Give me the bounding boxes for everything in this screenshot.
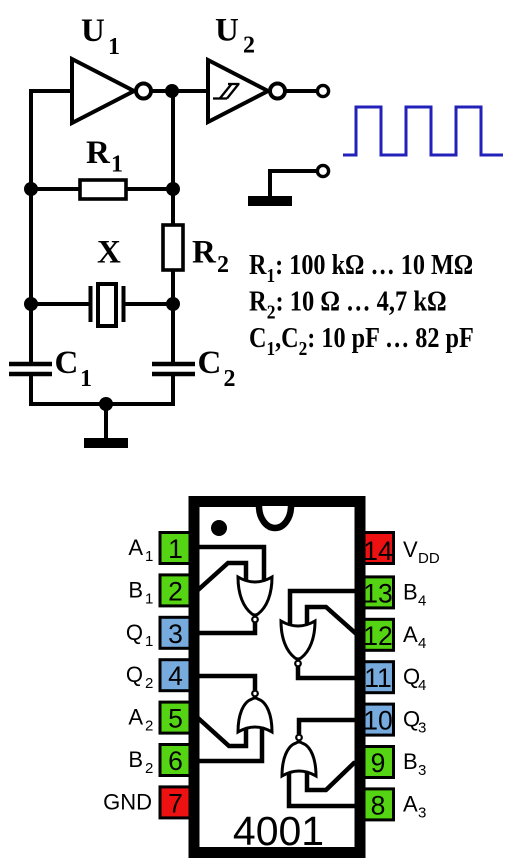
- svg-text:3: 3: [418, 720, 426, 737]
- svg-text:13: 13: [363, 578, 392, 608]
- svg-text:4001: 4001: [233, 808, 324, 854]
- svg-text:4: 4: [418, 635, 426, 652]
- svg-text:1: 1: [145, 548, 153, 565]
- svg-text:GND: GND: [103, 789, 152, 814]
- svg-text:1: 1: [108, 34, 120, 60]
- svg-text:U: U: [81, 13, 105, 49]
- svg-text:X: X: [97, 235, 121, 271]
- svg-text:B: B: [403, 579, 418, 604]
- svg-text:3: 3: [168, 619, 183, 649]
- svg-text:B: B: [128, 577, 143, 602]
- svg-text:2: 2: [243, 33, 255, 59]
- svg-text:6: 6: [168, 746, 183, 776]
- svg-text:9: 9: [371, 748, 386, 778]
- svg-text:A: A: [128, 705, 143, 730]
- svg-text:A: A: [403, 791, 418, 816]
- svg-text:Q: Q: [126, 620, 143, 645]
- svg-text:1: 1: [80, 366, 92, 392]
- svg-text:R: R: [86, 135, 111, 171]
- svg-text:4: 4: [418, 677, 426, 694]
- svg-text:8: 8: [371, 790, 386, 820]
- svg-text:3: 3: [418, 804, 426, 821]
- svg-text:12: 12: [363, 621, 392, 651]
- svg-text:5: 5: [168, 704, 183, 734]
- svg-text:3: 3: [418, 762, 426, 779]
- svg-text:DD: DD: [418, 550, 440, 567]
- svg-text:B: B: [403, 749, 418, 774]
- svg-text:10: 10: [363, 706, 392, 736]
- svg-text:7: 7: [168, 788, 183, 818]
- svg-text:2: 2: [168, 576, 183, 606]
- svg-text:4: 4: [168, 661, 183, 691]
- svg-text:14: 14: [363, 536, 392, 566]
- svg-text:A: A: [403, 622, 418, 647]
- svg-text:11: 11: [364, 663, 392, 693]
- svg-text:1: 1: [145, 633, 153, 650]
- svg-text:A: A: [128, 535, 143, 560]
- svg-text:C: C: [198, 345, 222, 381]
- svg-text:Q: Q: [126, 662, 143, 687]
- svg-text:2: 2: [145, 718, 153, 735]
- svg-text:B: B: [128, 747, 143, 772]
- svg-text:2: 2: [217, 252, 229, 278]
- svg-text:2: 2: [224, 366, 236, 392]
- svg-text:C: C: [55, 345, 79, 381]
- svg-text:V: V: [403, 537, 418, 562]
- svg-text:1: 1: [168, 534, 183, 564]
- svg-text:U: U: [215, 13, 239, 49]
- svg-text:R: R: [192, 235, 217, 271]
- svg-text:2: 2: [145, 675, 153, 692]
- svg-text:4: 4: [418, 592, 426, 609]
- svg-text:1: 1: [145, 590, 153, 607]
- svg-text:2: 2: [145, 760, 153, 777]
- svg-text:1: 1: [111, 152, 123, 178]
